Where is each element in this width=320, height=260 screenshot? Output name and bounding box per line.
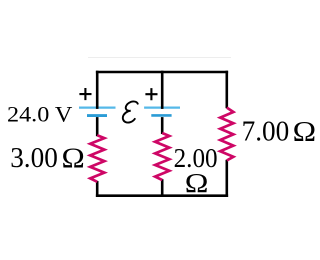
- wire middle upper (top wire to battery B2): [161, 71, 164, 109]
- resistor R2 (2.00 ohm) zigzag: [155, 133, 169, 180]
- resistor R3 (7.00 ohm) zigzag: [220, 108, 233, 161]
- svg-text:Ω: Ω: [293, 115, 316, 148]
- wire middle lower (resistor R2 to bottom wire): [161, 179, 164, 197]
- wire right lower (resistor R3 to bottom wire): [226, 160, 229, 197]
- battery B2 (EMF) positive plate: [144, 106, 180, 108]
- wire left middle (battery B1 to resistor R1): [96, 117, 99, 136]
- wire left lower (resistor R1 to bottom wire): [96, 181, 99, 197]
- wire right upper (top wire to resistor R3): [226, 71, 229, 109]
- battery B1 negative plate: [87, 114, 107, 117]
- resistor R1 (3.00 ohm) zigzag: [90, 135, 104, 182]
- svg-text:Ω: Ω: [185, 168, 209, 198]
- battery B1 (24.0 V) positive plate: [79, 106, 116, 108]
- svg-text:24.0 V: 24.0 V: [7, 102, 72, 127]
- wire top: [96, 71, 228, 74]
- svg-text:Ω: Ω: [62, 141, 85, 174]
- svg-text:7.00: 7.00: [242, 115, 290, 147]
- plus sign battery B2: [145, 88, 157, 100]
- wire left upper (top wire to battery B1): [96, 71, 99, 109]
- plus sign battery B1: [79, 88, 91, 100]
- battery B2 negative plate: [151, 114, 171, 117]
- wire bottom: [96, 194, 228, 197]
- wire middle mid (battery B2 to resistor R2): [161, 117, 164, 134]
- faint cropped hairline artifact above circuit: [88, 57, 231, 59]
- EMF script-E symbol of battery B2: [123, 101, 138, 122]
- svg-text:3.00: 3.00: [10, 142, 58, 174]
